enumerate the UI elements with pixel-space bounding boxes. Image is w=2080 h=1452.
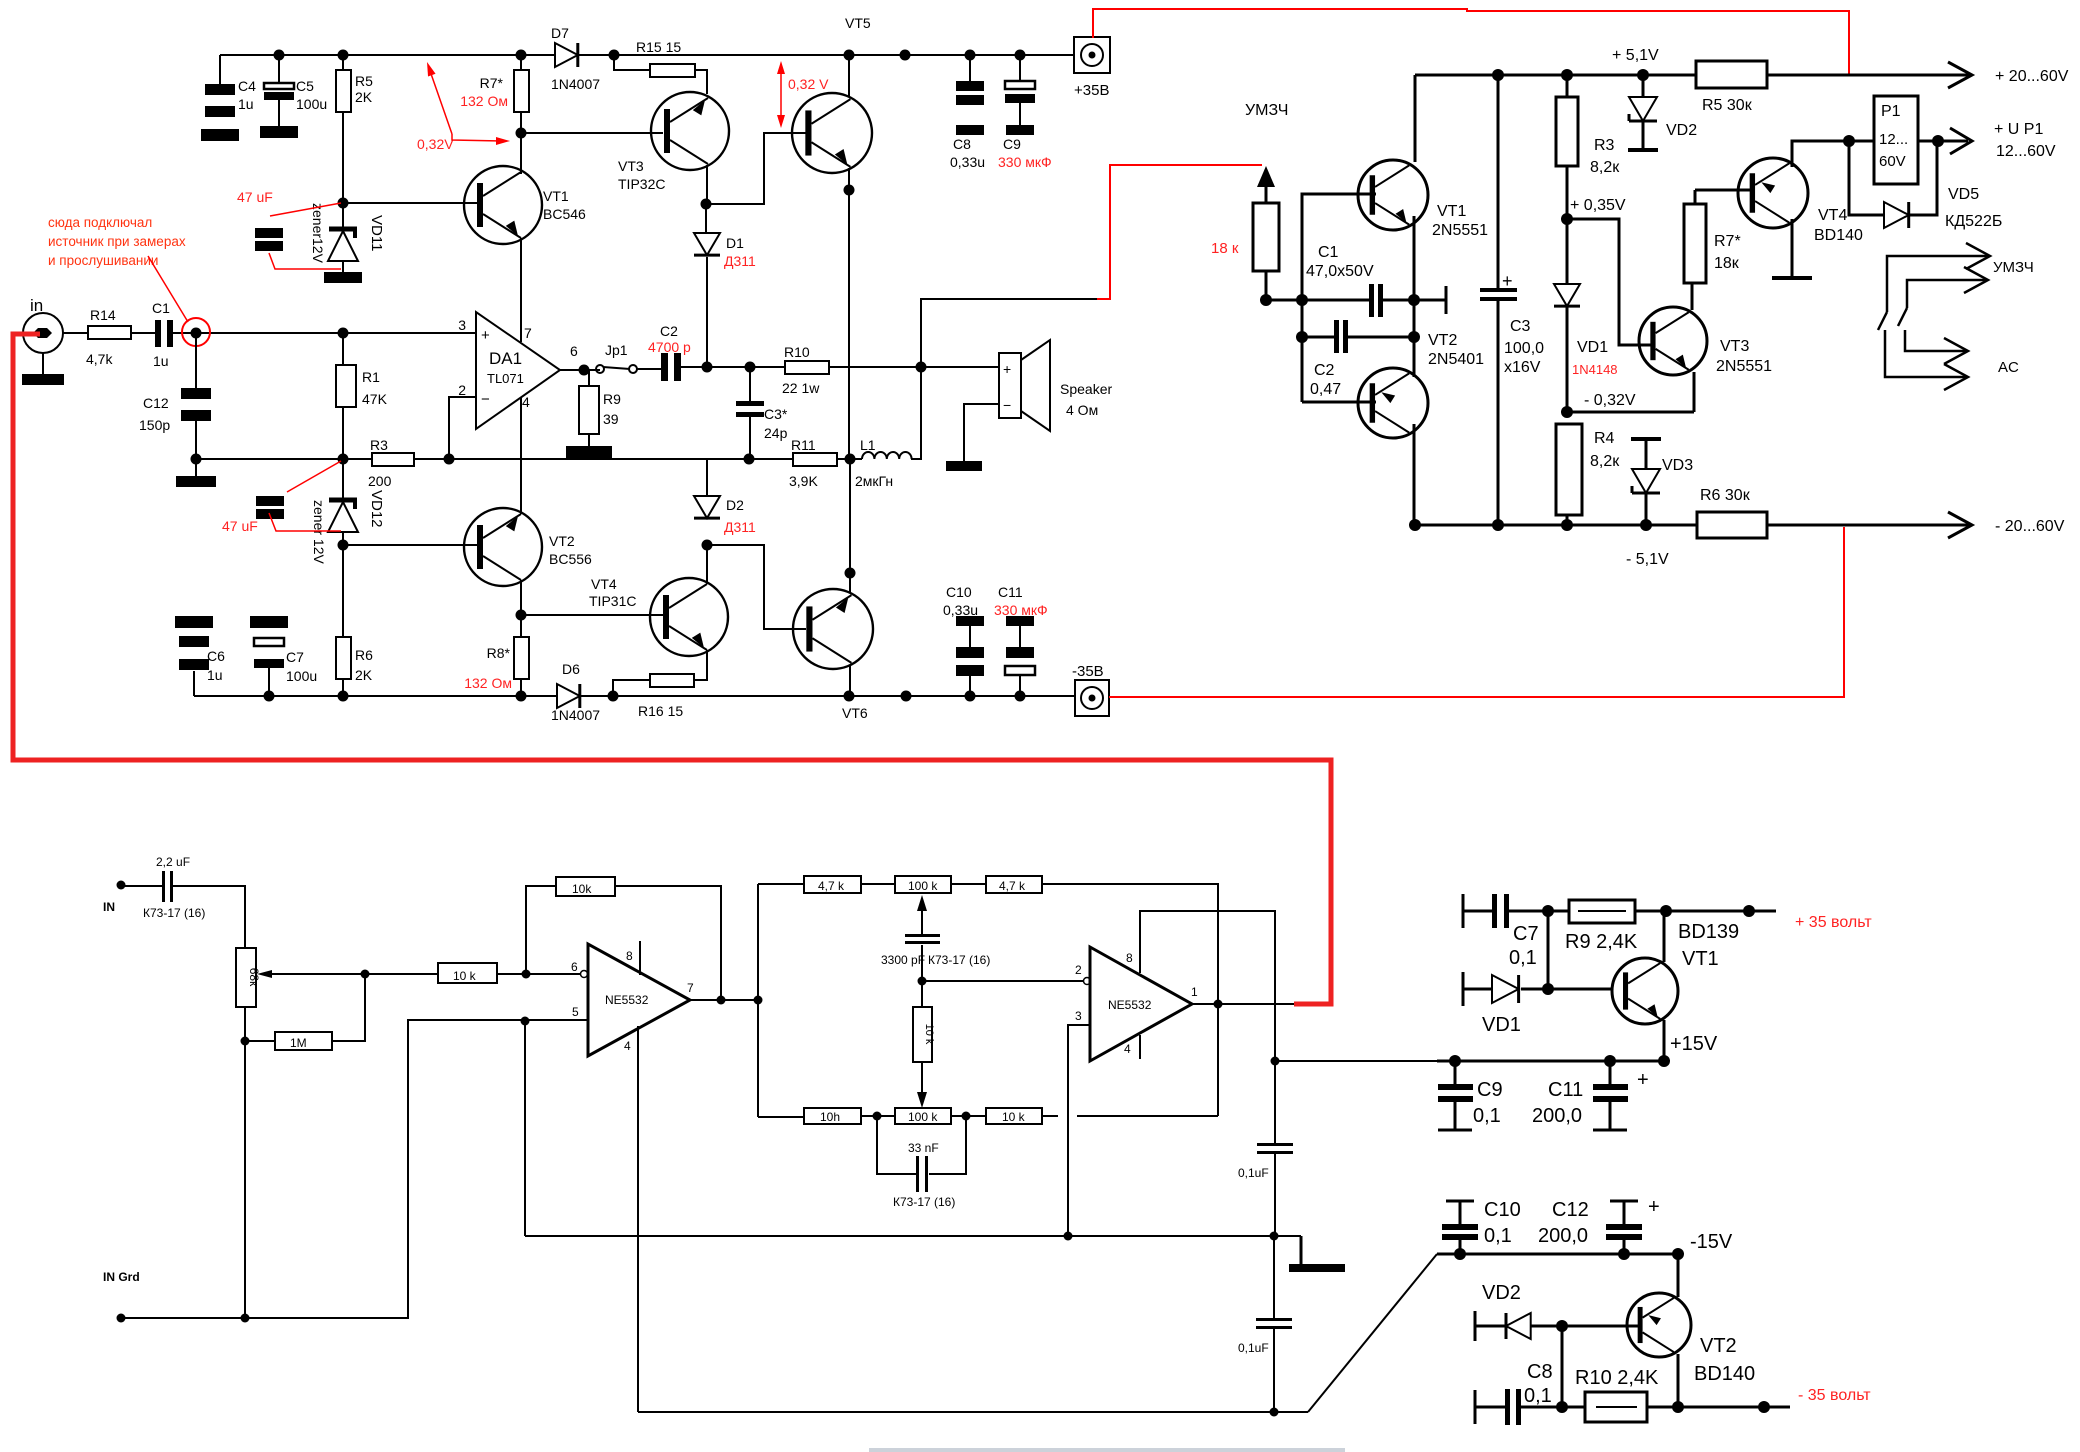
wiper 100k top arrow: [917, 895, 927, 911]
svg-text:D1: D1: [726, 235, 744, 251]
wire input to R14: [63, 332, 88, 334]
opamp NE5532 first: [588, 944, 690, 1056]
svg-text:C7: C7: [286, 649, 304, 665]
svg-text:R9: R9: [603, 391, 621, 407]
wire cap to pot: [173, 886, 245, 948]
svg-text:+ 35 вольт: + 35 вольт: [1795, 914, 1872, 931]
wire +15 feed: [1275, 1060, 1440, 1062]
wire red thick preamp-out to amp-in: [13, 334, 1331, 1004]
svg-text:2,2 uF: 2,2 uF: [156, 855, 190, 869]
svg-text:К73-17 (16): К73-17 (16): [893, 1195, 955, 1209]
svg-text:BC546: BC546: [543, 206, 586, 222]
capacitor C8 psu: [1474, 1390, 1477, 1424]
zener VD2: [1642, 75, 1645, 97]
wire to VT3r base: [1567, 219, 1655, 345]
wire VT1r emitter down: [1413, 216, 1416, 377]
svg-text:Speaker: Speaker: [1060, 381, 1112, 397]
svg-text:0,33u: 0,33u: [943, 602, 978, 618]
diode D1 D311: [705, 204, 707, 233]
wire red -35 link: [1109, 527, 1844, 697]
svg-text:0,32 V: 0,32 V: [788, 76, 829, 92]
wire DA1 -input: [449, 397, 476, 459]
resistor R3 8,2k: [1566, 75, 1569, 97]
zener VD3: [1631, 437, 1661, 441]
resistor R6 2K: [342, 545, 344, 637]
svg-text:VD12: VD12: [368, 490, 385, 528]
wire VT2r emitter down: [1413, 424, 1416, 525]
svg-text:8,2к: 8,2к: [1590, 159, 1620, 176]
node DA1 pin2 branch: [444, 454, 455, 465]
wire L1 up to output: [911, 367, 921, 459]
node -35 out: [1758, 1401, 1770, 1413]
transistor VT5: [792, 93, 872, 173]
svg-text:C8: C8: [1527, 1361, 1553, 1383]
capacitor C10: [956, 616, 984, 626]
node C1r left branch: [1296, 294, 1308, 306]
node output to top path: [1214, 1000, 1223, 1009]
wire VT2 emitter: [520, 580, 522, 637]
svg-text:zener 12V: zener 12V: [311, 500, 327, 564]
ground VD11: [342, 261, 344, 272]
capacitor 47uF annotation bottom: [256, 496, 284, 506]
diode VD1 psu: [1462, 972, 1465, 1006]
svg-text:5: 5: [572, 1005, 579, 1019]
ground R9: [566, 446, 612, 458]
wire VD2 node down: [1561, 1326, 1564, 1407]
red annotation line to circle: [148, 256, 188, 322]
switch blades: [1878, 312, 1887, 330]
node VT6 collector dot: [845, 568, 856, 579]
svg-text:BD140: BD140: [1694, 1363, 1755, 1385]
wire C2 branch down to VT2 base: [1301, 300, 1304, 402]
wire stage2 top path: [758, 883, 804, 885]
switch block arrows AC: [1885, 330, 1966, 377]
node speaker feed: [916, 362, 927, 373]
svg-text:VT3: VT3: [1720, 338, 1749, 355]
svg-text:C9: C9: [1477, 1079, 1503, 1101]
svg-text:100 k: 100 k: [908, 1110, 938, 1124]
svg-text:VD11: VD11: [368, 215, 385, 251]
svg-text:200: 200: [368, 473, 392, 489]
svg-text:DA1: DA1: [489, 349, 522, 368]
capacitor 0,1uF lower: [1273, 1236, 1275, 1318]
svg-text:0,33u: 0,33u: [950, 154, 985, 170]
svg-text:10h: 10h: [820, 1110, 840, 1124]
svg-text:VT1: VT1: [543, 188, 569, 204]
node C10 bottom: [1454, 1248, 1466, 1260]
red arrow 0,32 V VT5: [780, 70, 782, 120]
svg-text:0,1: 0,1: [1509, 947, 1537, 969]
svg-text:10k: 10k: [572, 882, 592, 896]
wire b3 with gap: [1042, 1115, 1058, 1117]
node VD1-base: [1542, 983, 1554, 995]
transistor VT3 2N5551 right: [1639, 307, 1707, 375]
svg-text:VD2: VD2: [1666, 122, 1697, 139]
svg-text:R16 15: R16 15: [638, 703, 683, 719]
node stage2 input: [754, 996, 763, 1005]
svg-text:TIP32C: TIP32C: [618, 176, 665, 192]
svg-text:C7: C7: [1513, 923, 1539, 945]
svg-text:УМЗЧ: УМЗЧ: [1993, 259, 2034, 276]
capacitor C2: [661, 353, 668, 381]
svg-text:C5: C5: [296, 78, 314, 94]
connector -35V: [1075, 680, 1109, 716]
node +0,35V: [1561, 213, 1573, 225]
node C12 bottom: [191, 454, 202, 465]
diode VD1 1N4148: [1566, 219, 1569, 284]
svg-text:R3: R3: [1594, 137, 1615, 154]
svg-text:4 Ом: 4 Ом: [1066, 402, 1098, 418]
svg-text:D7: D7: [551, 25, 569, 41]
node input node: [191, 328, 202, 339]
node 33nF right: [962, 1112, 971, 1121]
svg-text:УМЗЧ: УМЗЧ: [1245, 102, 1288, 119]
svg-text:2: 2: [458, 382, 466, 398]
svg-text:100u: 100u: [286, 668, 317, 684]
resistor R3 200: [372, 453, 414, 466]
wire VT3 collector down: [706, 165, 708, 204]
svg-text:C2: C2: [1314, 362, 1335, 379]
svg-text:7: 7: [687, 981, 694, 995]
node bottom rail junctions: [264, 691, 275, 702]
transistor VT2 2N5401 right: [1358, 368, 1428, 438]
svg-text:VD3: VD3: [1662, 457, 1693, 474]
wire pot bottom: [244, 1007, 246, 1318]
svg-text:132 Ом: 132 Ом: [460, 93, 508, 109]
svg-text:−: −: [481, 391, 490, 408]
node rail right dots: [1492, 69, 1504, 81]
diode D2 D311: [706, 460, 708, 496]
transistor VT4 BD140 right: [1738, 158, 1808, 228]
node 33nF left: [873, 1112, 882, 1121]
red circle annotation: [182, 318, 210, 346]
pin 6 bubble: [581, 971, 588, 978]
svg-text:1: 1: [1191, 985, 1198, 999]
svg-text:BD139: BD139: [1678, 921, 1739, 943]
svg-text:TL071: TL071: [487, 371, 524, 386]
svg-text:VD2: VD2: [1482, 1282, 1521, 1304]
svg-text:150p: 150p: [139, 417, 170, 433]
svg-text:C11: C11: [998, 584, 1023, 600]
capacitor C11 psu: [1609, 1061, 1612, 1084]
wire 1M to wiper line: [332, 974, 365, 1041]
svg-text:источник при замерах: источник при замерах: [48, 234, 186, 249]
svg-text:C3: C3: [1510, 318, 1531, 335]
wire red speaker to 18k link: [1097, 165, 1262, 299]
diode D6 1N4007: [557, 684, 580, 708]
svg-text:R6: R6: [355, 647, 373, 663]
node C7-R9: [1542, 905, 1554, 917]
wire VT5 emitter chain down: [848, 168, 850, 461]
svg-text:1u: 1u: [238, 96, 254, 112]
wire 10k vert down arrow: [921, 1062, 923, 1092]
wire stage2 bottom path left: [758, 1116, 804, 1118]
svg-text:4,7 k: 4,7 k: [818, 879, 845, 893]
svg-text:R6 30к: R6 30к: [1700, 487, 1751, 504]
svg-text:7: 7: [524, 325, 532, 341]
opamp NE5532 second: [1090, 947, 1192, 1061]
node VT2psu collector: [1672, 1248, 1684, 1260]
capacitor C1 47,0x50V: [1369, 284, 1374, 317]
node IN: [117, 881, 126, 890]
svg-text:6: 6: [570, 343, 578, 359]
wire 10k to pin6: [497, 973, 581, 975]
svg-text:C4: C4: [238, 78, 256, 94]
wire cap to pin2 node: [921, 945, 923, 981]
svg-text:1N4007: 1N4007: [551, 76, 600, 92]
wire wiper to 10k: [365, 973, 438, 975]
wire IN to cap: [121, 885, 162, 887]
transistor VT2 BD140 psu: [1627, 1293, 1691, 1357]
svg-text:0,1uF: 0,1uF: [1238, 1166, 1269, 1180]
node C11 top: [1604, 1055, 1616, 1067]
svg-text:+ 5,1V: + 5,1V: [1612, 47, 1659, 64]
transistor VT6: [793, 589, 873, 669]
node R1 bottom: [338, 454, 349, 465]
node C12 bottom: [1618, 1248, 1630, 1260]
arrow +U P1: [1950, 128, 1972, 154]
wire b1: [861, 1115, 895, 1117]
switch block arrows UMZCH: [1887, 256, 1990, 312]
wire -0,32V line: [1567, 411, 1694, 414]
svg-text:+ U P1: + U P1: [1994, 121, 2043, 138]
svg-text:1u: 1u: [153, 353, 169, 369]
svg-text:C11: C11: [1548, 1079, 1583, 1101]
node pin3 on mid line: [1064, 1232, 1073, 1241]
wire pin5 branch vertical: [524, 1021, 526, 1236]
svg-text:8: 8: [626, 949, 633, 963]
node VT2 base: [342, 532, 344, 545]
wiper arrow: [257, 970, 272, 978]
resistor R4 8,2k: [1556, 424, 1582, 515]
svg-text:Jp1: Jp1: [605, 342, 628, 358]
node VT1r emitter: [1408, 294, 1420, 306]
wire stage2 input vertical: [757, 884, 759, 1117]
connector input jack: [23, 313, 63, 353]
resistor R10 22 1w: [785, 361, 829, 374]
transistor VT4 TIP31C: [650, 578, 728, 656]
svg-text:60V: 60V: [1879, 153, 1906, 170]
wire R15 branch: [614, 55, 650, 70]
wire t1: [861, 883, 895, 885]
svg-text:2K: 2K: [355, 667, 373, 683]
node P1 right: [1932, 135, 1944, 147]
ground speaker: [946, 461, 982, 471]
wire VT6 collector: [849, 461, 851, 592]
svg-text:VT2: VT2: [1428, 332, 1457, 349]
node wiper-1M junction: [361, 970, 370, 979]
svg-text:1u: 1u: [207, 667, 223, 683]
svg-text:2N5551: 2N5551: [1432, 222, 1488, 239]
grey bar bottom: [869, 1448, 1345, 1452]
transistor VT2 BC556: [464, 508, 542, 586]
svg-text:P1: P1: [1881, 103, 1901, 120]
zener VD12: [342, 459, 344, 500]
node C2r right: [1408, 331, 1420, 343]
node rail bottom dots: [1409, 519, 1421, 531]
svg-text:VT4: VT4: [1818, 207, 1847, 224]
svg-text:- 5,1V: - 5,1V: [1626, 551, 1669, 568]
svg-text:0,47: 0,47: [1310, 381, 1341, 398]
pin3 wire NE2: [1068, 1025, 1090, 1236]
node +35 out: [1743, 905, 1755, 917]
resistor 4,7k top right: [986, 876, 1042, 893]
diode VD2 psu: [1474, 1311, 1477, 1341]
capacitor C3* 24p: [749, 367, 751, 401]
node VT5 emitter dot: [844, 185, 855, 196]
svg-text:R5: R5: [355, 73, 373, 89]
wire DA1 +input: [196, 332, 476, 334]
capacitor C1: [155, 320, 161, 347]
red arrow 0,32V upper: [429, 68, 452, 134]
wire VT1psu collector: [1663, 911, 1666, 962]
node C3 bottom: [744, 454, 755, 465]
svg-text:zener12V: zener12V: [310, 203, 326, 264]
svg-text:3: 3: [1075, 1009, 1082, 1023]
node C9 top: [1449, 1055, 1461, 1067]
capacitor 2,2uF K73-17: [162, 871, 165, 902]
svg-text:0,1: 0,1: [1524, 1385, 1552, 1407]
wire VT1r collector corner: [1414, 75, 1417, 162]
wire top +35V rail: [220, 54, 1074, 56]
wire R14 to C1: [131, 332, 155, 334]
node VT2psu emitter junction: [1672, 1401, 1684, 1413]
capacitor 47uF annotation top: [255, 228, 283, 238]
svg-text:24p: 24p: [764, 425, 788, 441]
wire VT1 emitter to DA1 pin7: [520, 238, 522, 342]
wire R11 to L1: [837, 458, 862, 460]
svg-text:10 k: 10 k: [1002, 1110, 1026, 1124]
wire D1 to output node: [706, 257, 708, 367]
svg-text:8: 8: [1126, 951, 1133, 965]
wire bottom ground line: [638, 1411, 1308, 1413]
node rail junctions: [274, 50, 285, 61]
svg-text:+ 20...60V: + 20...60V: [1995, 68, 2069, 85]
svg-text:+ 0,35V: + 0,35V: [1570, 197, 1626, 214]
svg-text:КД522Б: КД522Б: [1945, 213, 2002, 230]
terminal bar C1 right: [1445, 286, 1448, 314]
svg-text:2N5401: 2N5401: [1428, 351, 1484, 368]
svg-text:и прослушивании: и прослушивании: [48, 253, 158, 268]
svg-text:NE5532: NE5532: [605, 993, 649, 1007]
resistor R5: [342, 55, 344, 70]
svg-text:47 uF: 47 uF: [222, 518, 258, 534]
svg-text:R7*: R7*: [1714, 233, 1741, 250]
svg-text:АC: АC: [1998, 359, 2019, 376]
svg-text:D6: D6: [562, 661, 580, 677]
svg-text:VT1: VT1: [1682, 948, 1719, 970]
svg-text:VT6: VT6: [842, 705, 868, 721]
svg-text:330 мкФ: 330 мкФ: [994, 602, 1048, 618]
wire VT5 collector: [848, 55, 850, 96]
svg-text:0,1: 0,1: [1473, 1105, 1501, 1127]
svg-text:47 uF: 47 uF: [237, 189, 273, 205]
svg-text:- 35 вольт: - 35 вольт: [1798, 1387, 1871, 1404]
svg-text:- 0,32V: - 0,32V: [1584, 392, 1636, 409]
pin 4 wire NE1 long: [637, 1026, 639, 1412]
arrow +20..60V: [1948, 62, 1972, 88]
svg-text:L1: L1: [860, 437, 876, 453]
svg-text:VT4: VT4: [591, 576, 617, 592]
svg-text:+: +: [1003, 361, 1011, 377]
capacitor C8: [969, 55, 971, 81]
resistor 1M: [245, 1040, 275, 1042]
wire speaker minus to ground: [964, 404, 999, 461]
svg-text:4,7k: 4,7k: [86, 351, 113, 367]
node -0,32V: [1561, 406, 1573, 418]
svg-text:1N4007: 1N4007: [551, 707, 600, 723]
wire -35 out: [1678, 1406, 1790, 1409]
svg-text:+: +: [1648, 1196, 1660, 1218]
node C8-R10: [1556, 1401, 1568, 1413]
svg-text:Д311: Д311: [724, 253, 756, 269]
ground C5: [260, 126, 298, 138]
svg-text:1N4148: 1N4148: [1572, 362, 1618, 377]
node VT1 collector junction: [516, 128, 527, 139]
svg-text:6: 6: [571, 960, 578, 974]
capacitor C7 psu: [1462, 894, 1465, 928]
svg-text:К73-17 (16): К73-17 (16): [143, 906, 205, 920]
svg-text:C10: C10: [1484, 1199, 1521, 1221]
capacitor C5: [278, 55, 280, 83]
svg-text:10 k: 10 k: [453, 969, 477, 983]
opamp DA1 TL071: [476, 312, 560, 429]
capacitor C6: [175, 616, 213, 628]
resistor 10k bottom right: [986, 1108, 1042, 1124]
capacitor 3300pF: [905, 934, 940, 937]
capacitor C12 psu: [1610, 1200, 1638, 1203]
svg-text:2: 2: [1075, 963, 1082, 977]
node D2 bottom junction: [702, 540, 713, 551]
svg-text:+35В: +35В: [1074, 82, 1109, 99]
resistor 4,7k top left: [804, 876, 861, 893]
resistor R9 2,4K psu: [1548, 910, 1569, 913]
relay P1 box: [1849, 140, 1874, 143]
resistor R15: [650, 64, 695, 77]
svg-text:47,0x50V: 47,0x50V: [1306, 263, 1374, 280]
arrow -20..60V: [1948, 512, 1972, 538]
resistor 100k top: [895, 876, 951, 893]
svg-text:33 nF: 33 nF: [908, 1141, 939, 1155]
wire VT2psu emitter: [1677, 1354, 1680, 1407]
svg-text:сюда подключал: сюда подключал: [48, 215, 152, 230]
svg-text:R14: R14: [90, 307, 116, 323]
wire R10 to speaker: [829, 366, 999, 368]
node L1 left: [845, 454, 856, 465]
wire 18k bottom: [1265, 271, 1268, 300]
input arrow 18k: [1265, 186, 1268, 203]
zener VD11: [342, 203, 344, 229]
node output D1 junction: [702, 362, 713, 373]
svg-text:10 k: 10 k: [923, 1024, 935, 1045]
wire -20..60V rail: [1415, 524, 1970, 527]
wire VD1 down: [1566, 306, 1569, 412]
node C3 top junction: [745, 362, 756, 373]
wire NE2 output: [1192, 1003, 1294, 1005]
potentiometer 68k: [236, 948, 256, 1007]
resistor R9 39: [588, 370, 590, 386]
svg-text:D2: D2: [726, 497, 744, 513]
svg-text:C1: C1: [1318, 244, 1339, 261]
diode VD5 KD522: [1849, 141, 1884, 215]
svg-text:VD5: VD5: [1948, 186, 1979, 203]
wire VT6 emitter to rail: [849, 665, 851, 696]
wire VT4 emitter to R16: [694, 650, 707, 680]
wire feedback line left: [196, 458, 372, 460]
wire b2: [951, 1115, 986, 1117]
svg-text:68к: 68к: [247, 968, 261, 987]
resistor R11 3.9K: [793, 453, 837, 466]
